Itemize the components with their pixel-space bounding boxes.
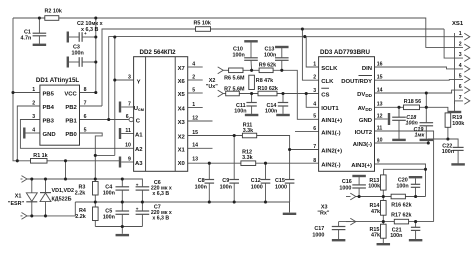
- wire AIN1(-) stub: [295, 131, 319, 133]
- diode VD2 KD522B: [40, 193, 51, 202]
- svg-text:AIN1(-): AIN1(-): [321, 131, 340, 137]
- capacitor C2 10uF: [78, 32, 80, 42]
- capacitor C9 100n: [229, 179, 239, 181]
- ground bar below C14: [276, 114, 290, 116]
- wire DD2 Ucm pin: [121, 106, 133, 108]
- capacitor C17 1000: [332, 226, 346, 228]
- wire DD2 X6 stub: [188, 79, 203, 81]
- op-amp/IC DD1 ATtiny15L box: [40, 85, 80, 145]
- svg-text:PB4: PB4: [43, 105, 55, 111]
- wire C19 column: [425, 107, 427, 122]
- wire DD2 X7 stub: [188, 66, 203, 68]
- connector X2 pin2 arrow: [218, 90, 224, 97]
- svg-text:PB0: PB0: [65, 132, 77, 138]
- wire row B common: [75, 202, 289, 212]
- ground bar above C13: [275, 46, 289, 48]
- svg-text:100k: 100k: [368, 184, 380, 190]
- svg-text:+: +: [136, 207, 139, 212]
- resistor R7 5.6M: [226, 91, 240, 96]
- svg-text:6: 6: [459, 84, 462, 90]
- resistor R16 62k: [391, 194, 405, 199]
- ground bar below C18: [392, 139, 406, 141]
- svg-text:R9 62k: R9 62k: [259, 62, 276, 68]
- wire C9 column riser: [233, 136, 235, 180]
- wire lower probe row: [27, 202, 75, 216]
- svg-text:R10 62k: R10 62k: [258, 86, 278, 92]
- wire DD2 X3 stub: [188, 120, 213, 122]
- connector XS1 pin4 arrow: [464, 66, 470, 73]
- svg-text:3.3k: 3.3k: [243, 128, 254, 134]
- resistor R6 5.6M: [229, 68, 243, 73]
- resistor R15 47k: [381, 224, 387, 238]
- svg-text:R5 10k: R5 10k: [194, 21, 211, 27]
- wire DIN to XS1 pin4: [375, 67, 464, 69]
- resistor R12 3.3k: [241, 161, 256, 166]
- svg-text:6: 6: [126, 114, 129, 120]
- wire C4 column: [121, 179, 123, 187]
- connector XS1 pin3 arrow: [464, 55, 470, 62]
- connector XS1 pin2 arrow: [464, 44, 470, 51]
- wire DOUT to XS1 pin5: [375, 78, 464, 81]
- resistor R18 56: [404, 105, 420, 110]
- svg-text:15: 15: [192, 130, 198, 136]
- ground bar left of C2: [67, 32, 69, 43]
- svg-text:100n: 100n: [264, 53, 276, 59]
- wire PB4 down to R1 row: [17, 106, 40, 161]
- ground bar below C21: [409, 239, 423, 241]
- svg-text:PB1: PB1: [65, 118, 77, 124]
- connector XS1 pin7 arrow: [464, 98, 470, 105]
- svg-text:100n: 100n: [220, 184, 232, 190]
- svg-text:DOUT/RDY: DOUT/RDY: [341, 79, 372, 85]
- svg-text:DD2 564КП2: DD2 564КП2: [140, 49, 177, 56]
- resistor R17 62k: [394, 219, 408, 224]
- wire DD2 X1 stub: [188, 147, 213, 149]
- svg-text:100n: 100n: [103, 190, 115, 196]
- svg-text:7: 7: [459, 95, 462, 101]
- connector X2 pin1 arrow: [218, 67, 224, 74]
- ground below C1: [33, 44, 47, 46]
- svg-text:DIN: DIN: [362, 66, 372, 72]
- wire C7 column: [141, 202, 143, 211]
- svg-text:7: 7: [84, 100, 87, 106]
- ground below row B: [283, 213, 297, 215]
- connector XS1 pin1 arrow: [464, 33, 470, 40]
- ground below R15: [377, 243, 391, 245]
- ground below C5 row: [116, 234, 130, 236]
- wire R15 column: [382, 215, 384, 224]
- capacitor C8 100n: [205, 179, 215, 181]
- svg-text:4.7n: 4.7n: [21, 36, 32, 42]
- ground bar above C20: [409, 176, 423, 178]
- wire DD1 GND pin to ground: [25, 132, 40, 134]
- ground bar at DD1 GND pin: [23, 128, 25, 139]
- wire bias R19/C22 node to AIN3(-): [428, 139, 448, 143]
- svg-text:VD1,VD2: VD1,VD2: [52, 188, 74, 194]
- wire DD2 X4 stub: [188, 107, 203, 109]
- svg-text:R6 5.6M: R6 5.6M: [224, 76, 245, 82]
- svg-text:C15: C15: [275, 178, 285, 184]
- resistor R13 100k: [381, 175, 387, 190]
- svg-text:3: 3: [32, 114, 35, 120]
- ground bar at DD2 A3: [119, 157, 121, 168]
- svg-text:X4: X4: [178, 107, 186, 113]
- svg-text:X3: X3: [321, 204, 328, 210]
- svg-text:100n: 100n: [103, 215, 115, 221]
- svg-text:SCLK: SCLK: [321, 66, 338, 72]
- svg-text:13: 13: [192, 156, 198, 162]
- svg-text:X7: X7: [178, 66, 186, 72]
- wire C5 column: [121, 202, 123, 211]
- svg-text:DD1 ATtiny15L: DD1 ATtiny15L: [36, 77, 80, 84]
- svg-text:1: 1: [192, 102, 195, 108]
- resistor R9 62k: [259, 68, 273, 73]
- connector X3 pin1 arrow: [350, 193, 356, 200]
- svg-text:3.3k: 3.3k: [242, 155, 253, 161]
- IC DD2 564KP2 box: [134, 57, 188, 172]
- wire C9 column bottom: [233, 183, 235, 202]
- svg-text:13: 13: [377, 102, 383, 108]
- wire VCC branch x96: [80, 18, 96, 93]
- wire R4 stems: [94, 202, 96, 207]
- svg-text:IOUT1: IOUT1: [321, 106, 339, 112]
- svg-text:14: 14: [377, 87, 383, 93]
- svg-text:R18 56: R18 56: [404, 99, 421, 105]
- wire DD2 A3 pin: [121, 161, 133, 163]
- svg-text:X5: X5: [178, 92, 186, 98]
- wire CLK staircase to XS1 pin3: [444, 29, 463, 58]
- wire VD1 stems: [31, 179, 33, 193]
- svg-text:3: 3: [459, 52, 462, 58]
- wire PB1 to DD2 pin C: [80, 119, 129, 121]
- svg-text:4: 4: [459, 63, 462, 69]
- svg-text:1: 1: [32, 87, 35, 93]
- wire C16 column: [358, 176, 360, 185]
- resistor R11 3.3k: [242, 133, 256, 138]
- svg-text:A2: A2: [135, 147, 143, 153]
- svg-text:1000: 1000: [339, 185, 351, 191]
- svg-text:2.2k: 2.2k: [75, 214, 86, 220]
- capacitor C20 100n: [411, 183, 420, 185]
- svg-text:1: 1: [459, 31, 462, 37]
- svg-text:R17 62k: R17 62k: [391, 213, 411, 219]
- wire DVDD-AVDD link: [425, 93, 427, 107]
- wire C18 column: [398, 107, 400, 117]
- svg-text:4: 4: [313, 102, 316, 108]
- svg-text:A3: A3: [135, 161, 143, 167]
- capacitor C4 100n: [116, 186, 130, 188]
- svg-text:X2: X2: [178, 135, 186, 141]
- svg-text:5: 5: [313, 114, 316, 120]
- svg-text:100n: 100n: [396, 183, 408, 189]
- svg-text:GND: GND: [359, 118, 372, 124]
- wire AIN2(+) pin line: [290, 149, 319, 151]
- wire XS1 bracket: [454, 33, 456, 104]
- svg-text:100n: 100n: [265, 109, 277, 115]
- svg-text:X0: X0: [178, 161, 186, 167]
- svg-text:+: +: [136, 182, 139, 187]
- svg-text:11: 11: [125, 128, 131, 134]
- IC DD3 AD7793BRU box: [319, 57, 375, 172]
- resistor R5 10k: [196, 27, 211, 32]
- svg-text:2.2k: 2.2k: [75, 190, 86, 196]
- wire VD2 stems: [45, 179, 47, 193]
- wire C3 leads: [69, 61, 79, 63]
- svg-text:1000: 1000: [312, 232, 324, 238]
- svg-text:PB5: PB5: [43, 91, 55, 97]
- svg-text:2: 2: [192, 74, 195, 80]
- svg-text:100k: 100k: [452, 121, 464, 127]
- svg-text:C9: C9: [222, 178, 229, 184]
- wire C8 column: [208, 163, 210, 179]
- capacitor C11 100n: [246, 102, 256, 104]
- svg-text:DD3 AD7793BRU: DD3 AD7793BRU: [320, 49, 371, 56]
- connector X1 pin2 arrow: [22, 213, 28, 220]
- svg-text:"Ux": "Ux": [206, 84, 218, 90]
- svg-text:х 6,3 В: х 6,3 В: [81, 27, 98, 33]
- wire probe row A: [27, 179, 142, 187]
- svg-text:C12: C12: [251, 178, 261, 184]
- svg-text:C8: C8: [198, 178, 205, 184]
- svg-text:9: 9: [128, 156, 131, 162]
- wire XS1 pin7 stub: [455, 100, 464, 102]
- wire row C: [95, 226, 142, 228]
- capacitor C14 100n: [278, 102, 288, 104]
- wire Y net link to R3 column: [95, 154, 115, 156]
- svg-text:6: 6: [84, 114, 87, 120]
- svg-text:12: 12: [192, 115, 198, 121]
- svg-text:47k: 47k: [371, 209, 380, 215]
- wire row B ground stem: [289, 202, 291, 212]
- svg-text:х 6,3 В: х 6,3 В: [152, 191, 169, 197]
- svg-text:100n: 100n: [195, 184, 207, 190]
- wire DD2 X5 stub: [188, 92, 203, 94]
- capacitor C21 100n: [411, 226, 420, 228]
- resistor R4 2.2k: [93, 207, 99, 221]
- wire DD3 GND pin stub: [375, 118, 388, 120]
- svg-text:VCC: VCC: [64, 91, 77, 97]
- ground bar below C11: [245, 114, 259, 116]
- svg-text:C16: C16: [342, 179, 352, 185]
- capacitor C6 220uF: [136, 186, 150, 188]
- wire PB2 to row29: [80, 105, 103, 107]
- wire C20 bottom: [415, 188, 417, 197]
- svg-text:3: 3: [313, 88, 316, 94]
- svg-text:10: 10: [377, 137, 383, 143]
- wire IOUT2 to bottom row: [375, 131, 434, 222]
- svg-text:XS1: XS1: [452, 21, 464, 27]
- svg-text:1000: 1000: [275, 184, 287, 190]
- wire C21 column: [415, 196, 417, 198]
- wire left probe rail x13: [13, 18, 31, 161]
- resistor R14 47k: [381, 201, 387, 216]
- svg-text:100n: 100n: [72, 51, 84, 57]
- ground bar below C19: [420, 139, 434, 141]
- wire PB0 jog to R3 column: [80, 133, 103, 179]
- capacitor C18 100n: [392, 116, 406, 118]
- svg-text:1мк: 1мк: [415, 133, 425, 139]
- svg-text:DVDD: DVDD: [357, 92, 373, 98]
- svg-text:CLK: CLK: [321, 79, 334, 85]
- ground bar below C22: [451, 163, 465, 165]
- wire Y pin to A2 net vertical: [115, 37, 134, 80]
- svg-text:AIN3(-): AIN3(-): [353, 142, 372, 148]
- svg-text:R2 10k: R2 10k: [45, 9, 62, 15]
- svg-text:9: 9: [377, 158, 380, 164]
- wire C12 column: [265, 163, 267, 179]
- wire PB3 to DD2 A2: [20, 120, 133, 149]
- wire C22 column: [457, 151, 459, 164]
- capacitor C1 4.7n: [33, 32, 47, 34]
- wire R1 row to probe row and A3 ground: [47, 160, 119, 162]
- svg-text:AIN3(+): AIN3(+): [351, 163, 372, 169]
- svg-text:47k: 47k: [371, 233, 380, 239]
- wire SCLK net row36.6: [109, 37, 463, 120]
- svg-text:A1: A1: [135, 132, 143, 138]
- resistor R19 100k: [445, 113, 451, 127]
- wire Ux lower net row93.5: [223, 93, 226, 95]
- wire X2/R11 net: [188, 135, 243, 137]
- svg-text:Y: Y: [137, 79, 141, 85]
- svg-text:R7 5.6M: R7 5.6M: [224, 86, 245, 92]
- wire CLK net row29: [102, 29, 196, 106]
- svg-text:PB3: PB3: [43, 118, 55, 124]
- wire AIN3+ row to X3 net: [375, 164, 426, 197]
- svg-text:100n: 100n: [233, 53, 245, 59]
- wire SCLK drop to DD3 pin1: [306, 37, 318, 67]
- svg-text:КД522Б: КД522Б: [52, 197, 72, 203]
- capacitor C12 1000: [261, 179, 271, 181]
- resistor R1 1k: [31, 159, 48, 164]
- svg-text:14: 14: [192, 143, 198, 149]
- junction dots: [38, 16, 41, 19]
- resistor R10 62k: [258, 91, 277, 96]
- wire PB5 from rail: [13, 92, 40, 94]
- svg-text:2: 2: [459, 42, 462, 48]
- svg-text:100n: 100n: [390, 233, 402, 239]
- wire AVDD row: [375, 106, 404, 108]
- svg-text:GND: GND: [43, 132, 56, 138]
- svg-text:8: 8: [313, 158, 316, 164]
- capacitor C13 100n: [275, 57, 289, 59]
- svg-text:"ESR": "ESR": [8, 201, 25, 207]
- svg-text:100n: 100n: [234, 109, 246, 115]
- svg-text:R1 1k: R1 1k: [33, 153, 47, 159]
- connector XS1 pin6 arrow: [464, 87, 470, 94]
- svg-text:7: 7: [128, 101, 131, 107]
- svg-text:5: 5: [459, 74, 462, 80]
- wire C2 leads: [69, 36, 79, 38]
- capacitor C15 1000: [285, 179, 295, 181]
- svg-text:AIN1(+): AIN1(+): [321, 118, 342, 124]
- svg-text:1000: 1000: [251, 184, 263, 190]
- svg-text:х 6,3 В: х 6,3 В: [152, 216, 169, 222]
- svg-text:8: 8: [84, 87, 87, 93]
- ground bar left of C3: [67, 57, 69, 68]
- wire Ux upper net row70.3: [223, 69, 228, 71]
- capacitor C10 100n: [244, 57, 258, 59]
- svg-text:6: 6: [313, 126, 316, 132]
- wire C1 column: [38, 18, 40, 33]
- capacitor C5 100n: [116, 210, 130, 212]
- svg-text:2: 2: [32, 100, 35, 106]
- capacitor C16 1000: [352, 184, 366, 186]
- svg-text:R8 47k: R8 47k: [256, 78, 273, 84]
- wire DVDD row to XS1 pin6: [375, 90, 464, 93]
- wire R3 stems: [94, 179, 96, 182]
- svg-text:7: 7: [313, 144, 316, 150]
- svg-text:X6: X6: [178, 79, 186, 85]
- ground bar above C10: [244, 40, 258, 42]
- svg-text:X3: X3: [178, 120, 186, 126]
- wire DD2 A1 pin: [121, 133, 133, 135]
- wire R13 top row: [384, 169, 426, 175]
- wire C17 column: [338, 230, 340, 240]
- svg-text:2: 2: [313, 75, 316, 81]
- svg-text:5: 5: [84, 127, 87, 133]
- capacitor C19 1uk: [420, 122, 434, 124]
- svg-text:AIN2(-): AIN2(-): [321, 162, 340, 168]
- resistor R8 47k: [249, 75, 255, 89]
- svg-text:CS: CS: [321, 92, 329, 98]
- ground bar at DD2 A1: [119, 128, 121, 139]
- connector X3 pin2 arrow: [350, 218, 356, 225]
- svg-text:4: 4: [192, 61, 195, 67]
- svg-text:X1: X1: [178, 147, 186, 153]
- connector XS1 pin5 arrow: [464, 76, 470, 83]
- resistor R2 10k: [45, 16, 59, 21]
- capacitor C3 100n: [78, 57, 80, 67]
- wire C5 ground stem: [121, 227, 123, 234]
- svg-text:Uсм: Uсм: [134, 106, 145, 112]
- svg-text:C17: C17: [314, 226, 324, 232]
- capacitor C7 220uF: [136, 210, 150, 212]
- ground bar below C17: [332, 239, 346, 241]
- resistor R3 2.2k: [93, 182, 99, 196]
- wire IOUT1 feed from CS row: [306, 94, 318, 108]
- wire CLK drop to DD3 pin2: [302, 29, 318, 80]
- svg-text:3: 3: [128, 74, 131, 80]
- ground bar at DD3 GND: [388, 113, 390, 125]
- wire XS1 pin7 to ground: [454, 101, 456, 112]
- wire AIN3- to bias node: [375, 142, 429, 144]
- wire X3 upper row: [356, 196, 391, 198]
- ground bar above C16: [352, 175, 366, 177]
- connector X1 pin1 arrow: [22, 176, 28, 183]
- wire C6 column: [141, 190, 143, 202]
- DD2 pin C inversion bubble: [129, 117, 133, 121]
- svg-text:PB2: PB2: [65, 105, 77, 111]
- wire C15 column bottom: [289, 183, 291, 202]
- svg-text:16: 16: [377, 61, 383, 67]
- wire R10 to DD3 CS: [277, 93, 319, 95]
- wire R19 bottom to C22: [448, 127, 458, 147]
- wire R13-R14 column: [382, 190, 384, 200]
- svg-text:R16 62k: R16 62k: [391, 202, 411, 208]
- svg-text:AVDD: AVDD: [358, 106, 373, 112]
- svg-text:11: 11: [377, 125, 383, 131]
- svg-text:10: 10: [125, 143, 131, 149]
- diode VD1 KD522B: [26, 193, 37, 202]
- svg-text:AIN2(+): AIN2(+): [321, 148, 342, 154]
- svg-text:C: C: [136, 118, 141, 124]
- ground below XS1 pin7: [448, 111, 462, 113]
- wire X3 lower row: [338, 222, 340, 227]
- svg-text:X1: X1: [15, 194, 22, 200]
- ground bar at DD2 Ucm: [119, 102, 121, 113]
- svg-text:4: 4: [32, 127, 35, 133]
- svg-text:IOUT2: IOUT2: [355, 130, 373, 136]
